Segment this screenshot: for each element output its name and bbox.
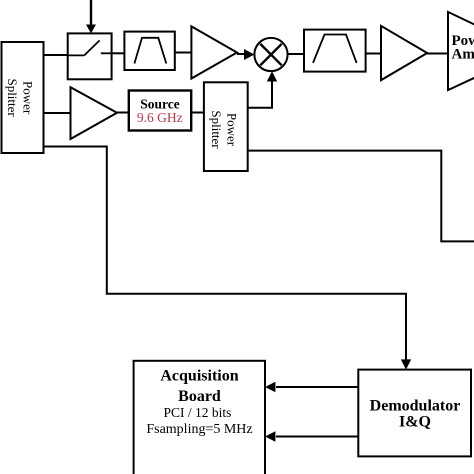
arrow demodulator to acquisition Q	[265, 431, 358, 441]
mixer M1	[254, 38, 287, 71]
switch S1 box	[68, 33, 112, 79]
wire mixer to BPF2	[288, 53, 304, 55]
arrow demodulator to acquisition I	[265, 382, 358, 392]
wire PS2 to right edge output	[248, 151, 474, 242]
wire A2 to source	[117, 112, 129, 114]
svg-text:PCI / 12 bits: PCI / 12 bits	[164, 405, 232, 420]
wire A3 to power amplifier	[427, 53, 448, 55]
svg-text:Fsampling=5 MHz: Fsampling=5 MHz	[146, 422, 252, 437]
demodulator box	[358, 370, 471, 457]
arrow A1 to mixer	[237, 49, 254, 60]
wire source to PS2	[191, 112, 204, 114]
control arrow into switch from top	[86, 0, 96, 33]
wire PS2 to mixer LO arrow	[248, 71, 278, 107]
bandpass filter BPF2	[304, 30, 366, 72]
power splitter PS2 box	[204, 82, 248, 171]
svg-text:Amplifier: Amplifier	[452, 47, 474, 63]
source box 9.6 GHz	[129, 91, 191, 131]
amplifier A1	[191, 26, 237, 78]
power amplifier PA	[448, 12, 474, 90]
svg-text:Demodulator: Demodulator	[370, 398, 461, 415]
amplifier A3	[381, 26, 427, 80]
wire PS1 to demodulator	[44, 147, 412, 370]
bandpass filter BPF1	[124, 32, 174, 70]
wire PS1 to switch	[44, 54, 68, 56]
wire switch to BPF1	[112, 52, 125, 54]
power splitter PS1 box	[2, 42, 44, 153]
svg-text:PowerSplitter: PowerSplitter	[209, 110, 239, 149]
svg-text:I&Q: I&Q	[399, 414, 431, 431]
wire BPF2 to amplifier A3	[366, 53, 381, 55]
acquisition board box	[134, 361, 265, 474]
svg-text:PowerSplitter: PowerSplitter	[5, 78, 35, 117]
svg-text:Board: Board	[178, 388, 221, 405]
wire BPF1 to amplifier A1	[175, 52, 192, 54]
svg-text:Acquisition: Acquisition	[160, 368, 238, 385]
amplifier A2	[71, 87, 118, 139]
svg-text:9.6 GHz: 9.6 GHz	[137, 110, 183, 125]
wire PS1 to amplifier A2	[44, 112, 71, 114]
